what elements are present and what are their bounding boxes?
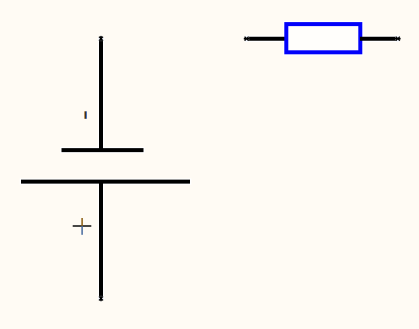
pin end marker (battery bottom wire end) xyxy=(98,296,104,302)
label "-" (negative terminal, rotated) xyxy=(84,111,87,119)
white halo underlays for all strokes xyxy=(20,24,400,300)
wire (resistor R1 right lead) xyxy=(360,37,398,41)
pin end marker (resistor left lead end) xyxy=(244,36,250,42)
resistor R1 body (blue box) xyxy=(286,24,360,52)
label "+" (positive terminal) xyxy=(73,218,92,235)
pin end marker (resistor right lead end) xyxy=(395,36,401,42)
wire (battery top lead) xyxy=(99,39,103,150)
pin end marker (battery top wire end) xyxy=(98,36,104,42)
battery B1 positive plate (long) xyxy=(21,180,190,184)
battery B1 negative plate (short) xyxy=(62,148,144,152)
wire (battery bottom lead) xyxy=(99,182,103,299)
wire (resistor R1 left lead) xyxy=(247,37,288,41)
